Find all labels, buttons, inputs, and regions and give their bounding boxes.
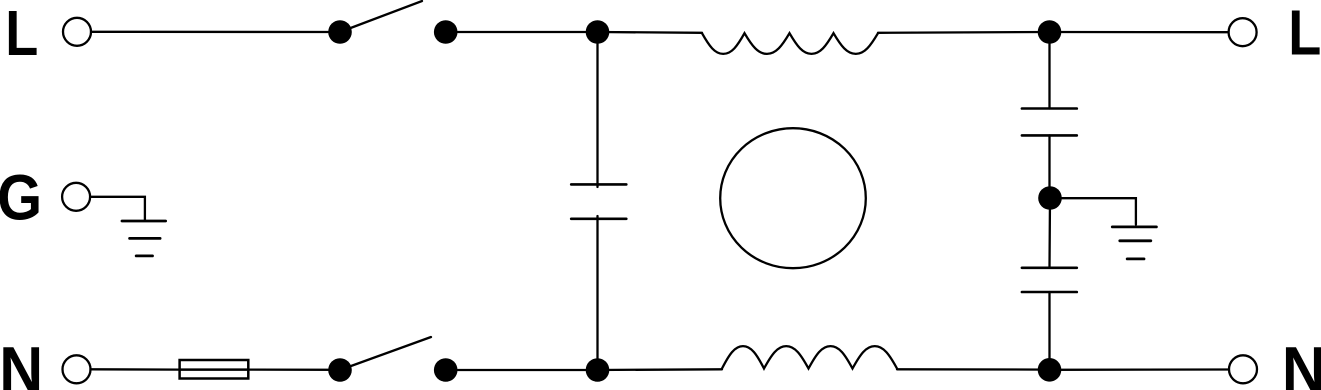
wire: node A to choke top winding — [598, 31, 703, 34]
wire: choke top to node C — [878, 31, 1050, 34]
svg-text:L: L — [5, 0, 38, 69]
capacitor CX (X-capacitor across lines) — [571, 184, 626, 218]
node: switch S1b pole — [328, 358, 352, 382]
terminal N input — [63, 355, 91, 383]
node: switch S1a throw — [434, 20, 458, 44]
wire: switch to node B — [446, 369, 598, 371]
terminal N output — [1229, 355, 1257, 383]
switch S1a blade — [340, 1, 422, 32]
wire: G terminal to chassis ground — [90, 197, 145, 220]
node D (bottom-right junction, Y-cap tap) — [1038, 358, 1062, 382]
inductor L1a (common-mode choke, top winding) — [702, 33, 878, 54]
capacitor CY1 (Y-capacitor, line to ground) — [1022, 109, 1077, 136]
node: switch S1a pole — [328, 20, 352, 44]
node A (top junction, X-cap tap) — [586, 20, 610, 44]
wire: node C to L output terminal — [1050, 31, 1229, 34]
svg-text:G: G — [0, 162, 42, 233]
wire: node E down to capacitor CY2 — [1048, 198, 1051, 268]
terminal G — [62, 183, 90, 211]
wire: fuse to switch pole — [248, 368, 340, 370]
node: switch S1b throw — [434, 358, 458, 382]
svg-text:N: N — [0, 334, 43, 390]
wire: node E to ground (right) — [1050, 198, 1136, 224]
svg-text:L: L — [1288, 0, 1321, 68]
ground symbol (right) — [1112, 227, 1156, 259]
inductor L1b (common-mode choke, bottom winding) — [722, 346, 897, 368]
wire: node D to N output terminal — [1050, 368, 1229, 371]
ground symbol (left, chassis) — [122, 221, 166, 256]
wire: N input terminal to fuse — [91, 368, 181, 371]
wire: capacitor CY1 to node E — [1048, 135, 1050, 198]
terminal L output — [1229, 18, 1257, 46]
choke core T1 (common-mode choke circle) — [720, 128, 866, 268]
node B (bottom junction, X-cap tap) — [586, 358, 610, 382]
wire: switch to node A — [446, 31, 598, 33]
svg-text:N: N — [1282, 334, 1321, 390]
wire: choke bottom to node D — [897, 368, 1050, 371]
wire: L input terminal to switch pole — [91, 31, 340, 34]
switch S1b blade — [340, 337, 431, 370]
node E (Y-cap midpoint) — [1038, 186, 1062, 210]
capacitor CY2 (Y-capacitor, neutral to ground) — [1022, 268, 1077, 292]
wire: node A down to capacitor CX — [596, 32, 598, 187]
fuse F1 — [180, 360, 249, 379]
node C (top-right junction, Y-cap tap) — [1038, 20, 1062, 44]
wire: node B to choke bottom winding — [598, 368, 723, 371]
wire: node C down to capacitor CY1 — [1048, 32, 1050, 109]
terminal L input — [63, 18, 91, 46]
wire: capacitor CY2 to node D — [1048, 292, 1050, 370]
wire: capacitor CX to node B — [596, 216, 598, 370]
